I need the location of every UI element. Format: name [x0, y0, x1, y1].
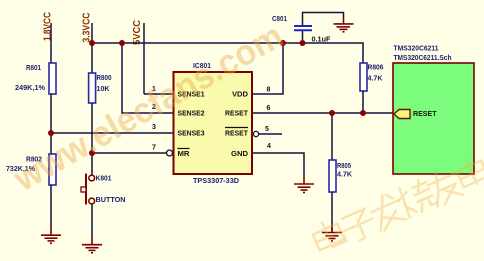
wire pin7 [92, 152, 167, 154]
svg-text:TMS320C6211: TMS320C6211 [394, 46, 439, 53]
resistor R801 [15, 63, 56, 94]
wire pin6 RESET net [252, 112, 394, 114]
resistor R802 [6, 154, 56, 185]
IC U1 IC801 TPS3307-33D [152, 63, 271, 185]
resistor R800 [89, 73, 112, 103]
友 [425, 165, 465, 207]
resistor R805 [329, 113, 352, 231]
子 [339, 207, 379, 244]
wire [362, 91, 364, 113]
svg-text:R800: R800 [97, 75, 112, 82]
svg-text:C801: C801 [272, 16, 287, 23]
junction SENSE2 branch [119, 40, 125, 46]
wire pin3 [51, 132, 174, 134]
svg-text:7: 7 [152, 145, 156, 152]
watermark chinese chars [310, 154, 484, 252]
junction R806 bottom [360, 110, 366, 116]
wire pin1 [144, 93, 174, 95]
junction node MR / button [89, 150, 95, 156]
sheet symbol TMS320C6211 [393, 46, 474, 175]
wire pin4 [252, 153, 304, 175]
svg-text:TMS320C6211.Sch: TMS320C6211.Sch [394, 55, 452, 62]
svg-text:8: 8 [267, 87, 271, 94]
pin 7 circle [167, 150, 173, 156]
svg-text:5VCC: 5VCC [132, 20, 143, 45]
power rail 3.3VCC [82, 13, 93, 74]
svg-text:0.1uF: 0.1uF [312, 37, 332, 44]
svg-text:10K: 10K [97, 86, 110, 93]
svg-text:249K,1%: 249K,1% [15, 85, 46, 92]
junction VDD pin 8 branch [280, 40, 286, 46]
svg-text:4.7K: 4.7K [337, 172, 352, 179]
ground [41, 226, 61, 243]
svg-text:4: 4 [267, 143, 271, 150]
电 [310, 216, 347, 252]
ground [334, 17, 354, 32]
svg-text:RESET: RESET [413, 111, 437, 118]
junction node SENSE3 / divider [48, 130, 54, 136]
svg-text:TPS3307-33D: TPS3307-33D [193, 178, 239, 185]
svg-text:R806: R806 [368, 65, 384, 72]
capacitor C801 [272, 13, 344, 44]
svg-text:SENSE3: SENSE3 [178, 131, 205, 138]
ground [294, 175, 314, 193]
svg-text:RESET: RESET [225, 111, 249, 118]
svg-text:4.7K: 4.7K [368, 76, 383, 83]
发 [367, 190, 407, 232]
junction C801 branch [300, 40, 306, 46]
resistor R806 [360, 63, 384, 91]
power rail 5VCC [132, 20, 144, 94]
junction R805 top [329, 110, 335, 116]
svg-text:VDD: VDD [232, 92, 248, 99]
partial char at edge [454, 154, 484, 189]
svg-text:RESET: RESET [225, 131, 249, 138]
svg-text:R801: R801 [26, 65, 41, 72]
svg-text:R805: R805 [337, 163, 351, 170]
wire pin2 branch [122, 43, 174, 113]
button K801 [81, 174, 126, 205]
sheet entry RESET port [394, 110, 437, 119]
烧 [394, 177, 438, 219]
svg-text:MR: MR [178, 151, 190, 158]
wire pin8 branch [252, 43, 283, 94]
wire [91, 103, 93, 175]
junction 3.3VCC rail / VDD wire [89, 40, 95, 46]
main horizontal wire [92, 43, 363, 63]
svg-text:5: 5 [265, 126, 269, 133]
svg-text:K801: K801 [96, 176, 112, 183]
wire [50, 94, 52, 154]
wire pin5 stub [253, 131, 282, 136]
svg-text:1.8VCC: 1.8VCC [43, 12, 54, 41]
svg-text:3.3VCC: 3.3VCC [82, 13, 93, 43]
wire [50, 185, 52, 226]
svg-text:SENSE2: SENSE2 [178, 111, 205, 118]
svg-text:GND: GND [231, 151, 248, 158]
power rail 1.8VCC [43, 12, 54, 63]
ground [82, 236, 102, 253]
svg-text:BUTTON: BUTTON [96, 197, 126, 204]
wire [91, 204, 93, 236]
ground [322, 226, 342, 241]
svg-text:6: 6 [267, 105, 271, 112]
